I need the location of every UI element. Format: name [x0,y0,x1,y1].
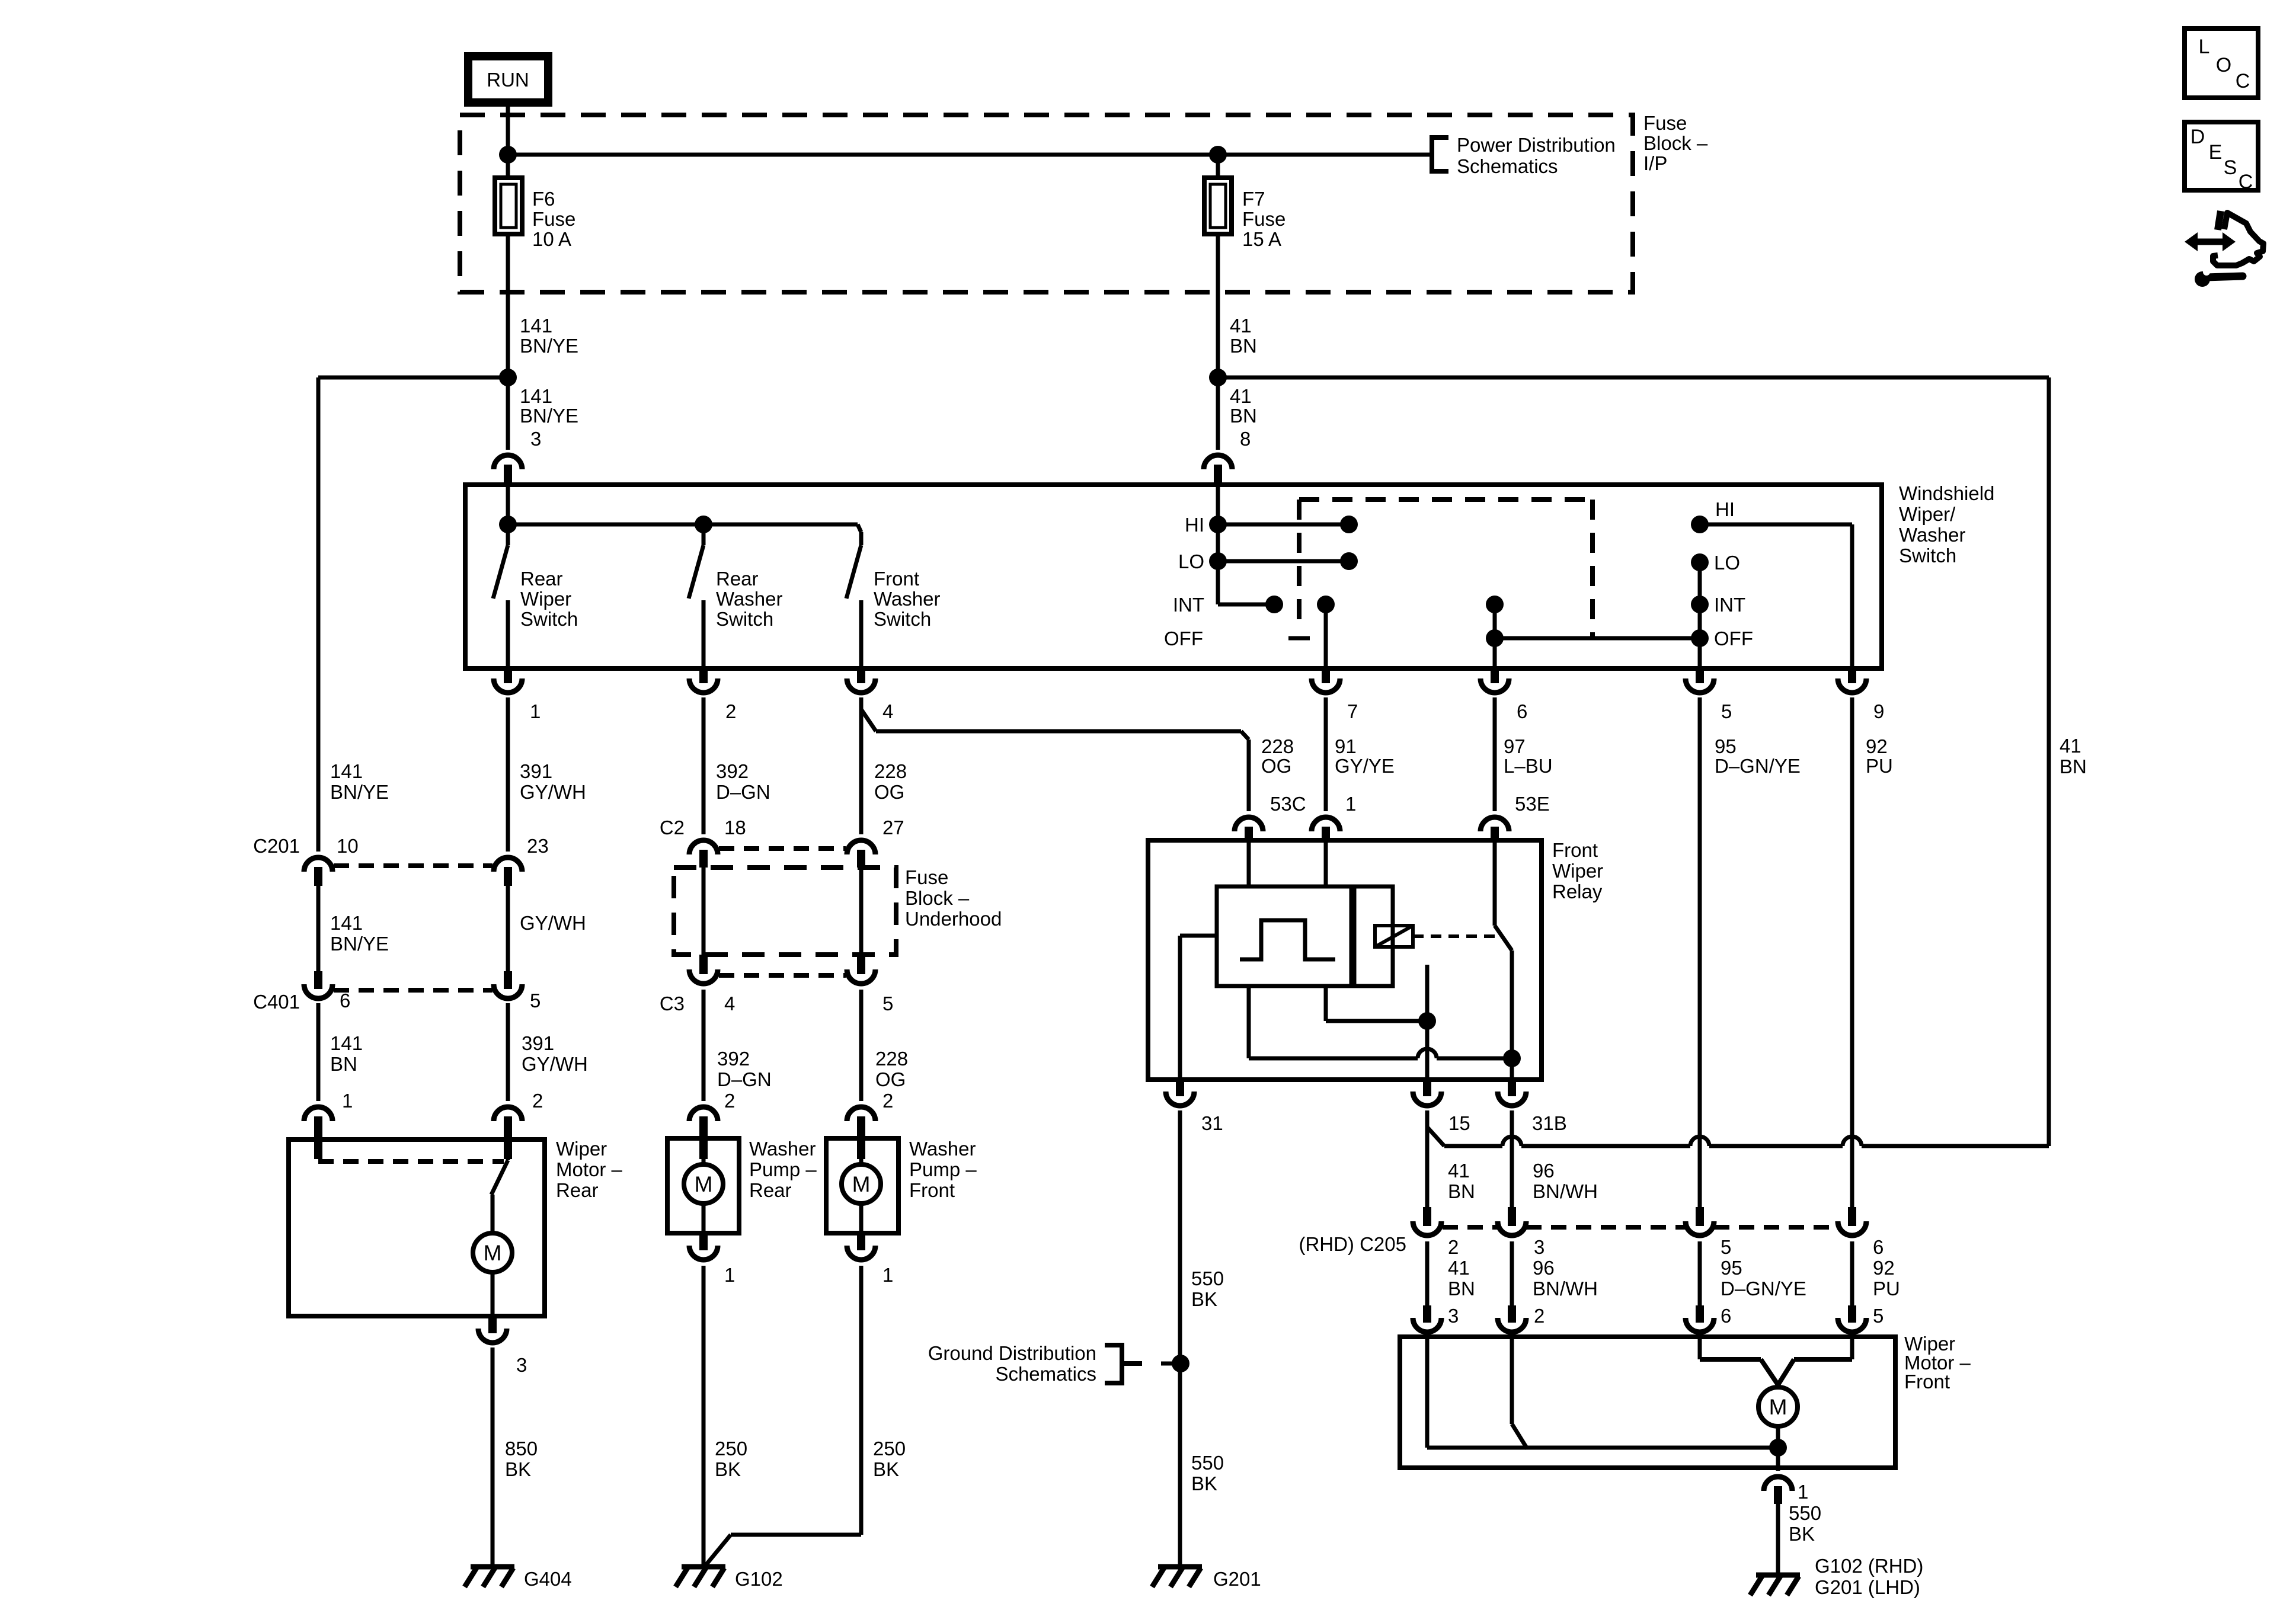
svg-text:HI: HI [1185,514,1204,536]
wire 550 BK upper [1178,1110,1182,1567]
label INT right [1714,594,1745,616]
svg-text:(RHD) C205: (RHD) C205 [1299,1233,1406,1255]
svg-text:C: C [2236,70,2250,92]
wire 228 to pump front [859,990,864,1101]
svg-text:Washer: Washer [716,588,782,610]
label Fuse Block - Underhood [905,866,1002,930]
label Wiper Motor - Rear [556,1138,623,1201]
label pin 3 [530,428,541,450]
label INT left [1173,594,1204,616]
connector relay pin 53C [1235,793,1306,840]
connector wiper motor rear pin 3 [478,1316,527,1376]
node junction RUN feed [499,146,517,164]
ground distribution reference bracket [1105,1345,1181,1383]
svg-text:41: 41 [2060,735,2081,757]
svg-text:BN: BN [1230,335,1257,357]
wire pin 6 off feed [1486,596,1504,668]
wire timer to pin 31 [1180,936,1217,1080]
node junction 41 split [1209,369,1227,386]
connector washer pump front pin 2 [847,1090,893,1159]
connector wiper motor rear pin 2 [494,1090,543,1159]
label HI right [1715,498,1735,520]
label LO left [1178,550,1204,572]
wire right bank common [1698,562,1702,668]
ground G102 [676,1567,783,1590]
svg-text:C2: C2 [660,817,685,838]
wire pin7 to relay 1 [1324,697,1328,811]
svg-text:E: E [2209,141,2223,164]
connector C201 pin 10 [304,835,359,886]
connector C3 pin 5 [847,955,893,1014]
wire pin1 to C201-23 [506,697,510,852]
svg-text:F7: F7 [1242,188,1265,210]
svg-text:Rear: Rear [716,568,759,590]
svg-text:BK: BK [873,1458,899,1480]
svg-text:6: 6 [340,990,350,1012]
svg-text:92: 92 [1866,735,1888,757]
svg-text:M: M [852,1172,871,1196]
label circuit 550 BK low [1191,1452,1224,1494]
svg-text:BK: BK [1789,1523,1815,1545]
wire pin2 to C2-18 [702,697,706,834]
connector C401 pin 6 [304,971,350,1012]
svg-text:Switch: Switch [716,608,773,630]
svg-text:BN: BN [1448,1180,1475,1202]
relay coil [1375,926,1413,947]
connector relay pin 15 [1413,1080,1470,1134]
motor M washer rear [684,1159,723,1233]
wire 31B to C205 [1510,1110,1514,1207]
svg-text:C3: C3 [660,993,685,1014]
label Washer Pump - Rear [749,1138,817,1201]
svg-text:BN: BN [330,1053,357,1075]
svg-text:5: 5 [530,990,541,1012]
wire 41 BN return [1427,1110,2049,1207]
label OFF right [1714,628,1753,649]
svg-text:5: 5 [1873,1305,1884,1327]
label LO right [1714,552,1740,574]
wire 550 BK front [1776,1504,1780,1575]
svg-text:Washer: Washer [874,588,940,610]
connector pin 1 switch output [494,668,541,722]
svg-text:10 A: 10 A [532,228,571,250]
wiper motor front box [1400,1337,1895,1468]
fuse block underhood dashed box [674,868,896,955]
connector wiper motor front pin 2 [1498,1305,1544,1332]
svg-text:Switch: Switch [1899,545,1956,566]
ground G201 [1152,1567,1261,1590]
svg-text:Relay: Relay [1552,881,1603,902]
label pin 8 [1240,428,1251,450]
svg-text:G201 (LHD): G201 (LHD) [1815,1576,1920,1598]
label circuit 41 BN lower [1230,385,1257,427]
wire 392 to pump rear [702,990,706,1101]
svg-text:Wiper/: Wiper/ [1899,503,1956,525]
svg-text:D–GN: D–GN [717,1068,772,1090]
svg-text:141: 141 [330,760,363,782]
svg-text:Fuse: Fuse [1643,112,1687,134]
svg-text:BK: BK [1191,1288,1217,1310]
svg-text:BN/WH: BN/WH [1533,1278,1598,1299]
label Front Washer Switch [874,568,940,630]
svg-text:L: L [2199,36,2210,58]
label Fuse Block - I/P [1643,112,1708,174]
wire power bus to Power Distribution [508,153,1431,157]
switch rear wiper [493,524,508,668]
label circuit GY/WH mid [520,912,586,934]
wire 53C to common [1249,986,1512,1058]
motor M washer front [842,1159,881,1233]
power distribution reference bracket [1432,137,1448,171]
svg-text:BN/WH: BN/WH [1533,1180,1598,1202]
label circuit 92 PU below C205 [1873,1257,1900,1299]
wire pin5 down [1698,697,1702,1207]
svg-text:141: 141 [330,912,363,934]
connector wiper motor front pin 6 [1686,1305,1731,1332]
svg-text:Rear: Rear [556,1179,599,1201]
motor M rear [473,1233,512,1272]
svg-text:Switch: Switch [520,608,578,630]
label Front Wiper Relay [1552,839,1603,902]
icon LOC box [2185,28,2258,98]
svg-text:Block –: Block – [1643,132,1708,154]
washer pump rear box [667,1138,739,1233]
connector C401 pin 5 [494,971,541,1012]
svg-text:Schematics: Schematics [995,1363,1096,1385]
connector C201 pin 23 [494,835,549,886]
connector wiper motor front pin 1 [1764,1477,1808,1504]
svg-text:Front: Front [874,568,919,590]
switch park front [1512,1337,1527,1449]
label circuit 95 D-GN/YE [1715,735,1801,777]
svg-text:M: M [1769,1395,1787,1419]
svg-text:3: 3 [1534,1236,1544,1258]
connector relay pin 1 [1312,793,1356,840]
svg-text:Wiper: Wiper [1552,860,1603,882]
svg-text:550: 550 [1191,1267,1224,1289]
svg-text:3: 3 [516,1354,527,1376]
node junction F7 tap [1209,146,1227,164]
windshield wiper/washer switch box [465,485,1882,668]
connector pin 2 switch output [689,668,736,722]
wire pin4 down [859,697,864,834]
label Ground Distribution Schematics [928,1342,1096,1385]
svg-text:850: 850 [505,1438,538,1459]
svg-text:31B: 31B [1532,1112,1567,1134]
svg-text:BN/YE: BN/YE [330,933,389,955]
wire motor front to pin1 [1776,1448,1780,1471]
svg-text:228: 228 [874,760,907,782]
node LO contact left [1209,552,1227,570]
wire LO contact left [1218,552,1358,570]
wire 141 branch left [318,377,508,852]
label circuit 141 BN/YE col A [330,760,389,803]
svg-text:391: 391 [522,1032,554,1054]
svg-text:5: 5 [1721,700,1732,722]
svg-text:PU: PU [1873,1278,1900,1299]
svg-text:OG: OG [1261,755,1291,777]
svg-text:53C: 53C [1270,793,1306,815]
svg-text:Pump –: Pump – [909,1158,977,1180]
connector pin 7 switch output [1312,668,1358,722]
svg-text:BN: BN [1448,1278,1475,1299]
connector wiper motor rear pin 1 [304,1090,353,1159]
svg-text:23: 23 [527,835,549,857]
label Washer Pump - Front [909,1138,977,1201]
wire C401 mate link [334,988,493,993]
ground G102 RHD G201 LHD [1750,1555,1923,1598]
svg-text:I/P: I/P [1643,152,1667,174]
fuse F7 15A [1204,155,1232,377]
svg-text:INT: INT [1173,594,1204,616]
node INT contact right [1691,596,1709,613]
svg-text:BK: BK [715,1458,741,1480]
wire pin1 into timer [1324,840,1328,886]
wire pin4 branch to relay 53C [861,709,1249,811]
connector C3 pin 4 [689,955,735,1014]
label OFF left [1164,628,1203,649]
switch relay contact blade [1495,926,1512,950]
svg-text:7: 7 [1347,700,1358,722]
label circuit 391 GY/WH low [522,1032,588,1075]
label Windshield Wiper/Washer Switch [1899,482,1994,566]
wire 850 BK [491,1347,495,1567]
svg-text:Fuse: Fuse [905,866,948,888]
svg-text:F6: F6 [532,188,555,210]
label circuit 41 BN above C205 [1448,1160,1475,1202]
wire C205-3 to motor [1510,1241,1514,1305]
connector pin 5 switch output [1686,668,1732,722]
wiper motor rear box [289,1140,545,1316]
svg-text:97: 97 [1504,735,1526,757]
label HI left [1185,514,1204,536]
switch front washer [846,532,861,668]
node OFF contact right [1691,629,1709,647]
svg-text:141: 141 [520,315,552,337]
svg-text:18: 18 [724,817,746,838]
svg-text:OG: OG [874,781,904,803]
wire 141 BN to motor [316,1003,321,1101]
icon DESC box [2185,122,2258,193]
wire 41 branch right to return [1218,377,2049,1146]
svg-text:Windshield: Windshield [1899,482,1994,504]
node junction rear washer feed [695,516,712,533]
node junction 550 BK tap [1172,1355,1189,1372]
wire 53E to relay contact [1493,840,1497,926]
wire 53C into timer [1247,840,1251,886]
svg-text:RUN: RUN [487,69,529,91]
svg-text:Rear: Rear [520,568,563,590]
svg-text:27: 27 [882,817,904,838]
svg-text:5: 5 [882,993,893,1014]
label circuit 141 BN/YE mid [330,912,389,955]
svg-text:Motor –: Motor – [556,1158,623,1180]
wire pin 7 pulse feed [1317,596,1335,668]
svg-text:1: 1 [342,1090,353,1112]
svg-text:OFF: OFF [1714,628,1753,649]
svg-text:BN/YE: BN/YE [520,405,578,427]
svg-text:2: 2 [882,1090,893,1112]
wire relay contact NO [1425,965,1430,1080]
label circuit 41 BN upper [1230,315,1257,357]
svg-text:Block –: Block – [905,887,970,909]
svg-text:96: 96 [1533,1257,1555,1279]
svg-text:550: 550 [1789,1502,1821,1524]
svg-text:C201: C201 [253,835,300,857]
label circuit 392 D-GN col C [716,760,770,803]
label circuit 141 BN/YE lower [520,385,578,427]
svg-text:Front: Front [1552,839,1598,861]
label Rear Washer Switch [716,568,782,630]
svg-text:O: O [2216,54,2231,76]
wire C205-6 to motor [1850,1241,1854,1305]
wire relay common [1503,950,1521,1080]
svg-text:S: S [2224,156,2237,179]
svg-text:41: 41 [1230,385,1252,407]
connector relay pin 31 [1166,1080,1223,1134]
svg-text:1: 1 [1798,1481,1808,1503]
svg-text:Front: Front [909,1179,955,1201]
connector washer pump rear pin 1 [689,1233,735,1286]
label circuit 250 BK front [873,1438,906,1480]
svg-text:HI: HI [1715,498,1735,520]
svg-text:Fuse: Fuse [1242,208,1285,230]
svg-text:Pump –: Pump – [749,1158,817,1180]
svg-text:6: 6 [1873,1236,1884,1258]
svg-text:LO: LO [1714,552,1740,574]
svg-text:Washer: Washer [749,1138,816,1160]
svg-text:2: 2 [724,1090,735,1112]
svg-text:BK: BK [1191,1473,1217,1494]
wire 250 BK rear [702,1266,706,1567]
svg-text:2: 2 [1448,1236,1459,1258]
svg-text:M: M [695,1172,713,1196]
svg-text:15: 15 [1448,1112,1470,1134]
svg-text:G404: G404 [524,1568,572,1590]
pulse waveform symbol [1240,920,1335,959]
svg-text:Front: Front [1904,1371,1950,1393]
label circuit 92 PU [1866,735,1893,777]
svg-text:BK: BK [505,1458,531,1480]
svg-text:C: C [2239,171,2253,193]
svg-text:41: 41 [1230,315,1252,337]
label circuit 550 BK mid [1191,1267,1224,1310]
wire pin1 to contact [1326,986,1436,1030]
label circuit 228 OG col D [874,760,907,803]
fuse block I/P dashed box [460,115,1633,292]
svg-text:228: 228 [875,1048,908,1070]
connector C205 pin 3 [1498,1207,1544,1258]
svg-text:5: 5 [1721,1236,1731,1258]
svg-text:250: 250 [715,1438,747,1459]
motor M front [1758,1387,1798,1426]
svg-text:95: 95 [1715,735,1737,757]
label circuit 91 GY/YE [1335,735,1395,777]
switch rear washer [689,524,703,668]
svg-text:41: 41 [1448,1160,1470,1182]
svg-text:BN/YE: BN/YE [330,781,389,803]
svg-text:Rear: Rear [749,1179,792,1201]
svg-text:L–BU: L–BU [1504,755,1553,777]
svg-text:Switch: Switch [874,608,931,630]
svg-text:Fuse: Fuse [532,208,575,230]
svg-text:D: D [2191,126,2205,148]
icon vehicle service symbol [2185,211,2263,287]
connector relay pin 31B [1498,1080,1567,1134]
wire front wiper switch common [1218,485,1274,604]
node INT contact left [1265,596,1283,613]
svg-text:Washer: Washer [1899,524,1965,546]
label circuit 96 BN/WH below C205 [1533,1257,1598,1299]
connector C205 pin 5 [1686,1207,1731,1258]
svg-text:250: 250 [873,1438,906,1459]
svg-text:91: 91 [1335,735,1357,757]
label Wiper Motor - Front [1904,1333,1971,1393]
svg-text:PU: PU [1866,755,1893,777]
label F6 Fuse 10 A [532,188,575,250]
svg-text:3: 3 [1448,1305,1459,1327]
label connector C2 [660,817,685,838]
svg-text:3: 3 [530,428,541,450]
svg-text:15 A: 15 A [1242,228,1281,250]
svg-text:2: 2 [1534,1305,1544,1327]
connector C2 pin 27 [847,817,904,868]
svg-text:41: 41 [1448,1257,1470,1279]
svg-text:D–GN: D–GN [716,781,770,803]
svg-text:141: 141 [330,1032,363,1054]
svg-text:GY/WH: GY/WH [520,781,586,803]
node HI contact right [1691,516,1709,533]
label Power Distribution Schematics [1457,134,1616,177]
node junction 141 split [499,369,517,386]
connector pin 9 switch output [1838,668,1884,722]
wire OFF link [1495,636,1700,641]
connector pin 8 switch [1204,377,1232,485]
washer pump front box [826,1138,898,1233]
connector washer pump front pin 1 [847,1233,893,1286]
svg-text:8: 8 [1240,428,1251,450]
label circuit 550 BK front [1789,1502,1821,1545]
label circuit 391 GY/WH col B [520,760,586,803]
svg-text:D–GN/YE: D–GN/YE [1715,755,1801,777]
wire 228 through fuse block [859,868,864,955]
wire 392 through fuse block [702,868,706,955]
wire switch feed bus [508,485,861,532]
svg-text:C401: C401 [253,991,300,1013]
ground G404 [465,1567,572,1590]
wire motor front pins 6 5 bar [1700,1337,1852,1385]
svg-text:M: M [484,1241,502,1265]
wire C205 mate link [1443,1225,1838,1230]
label connector C401 [253,991,300,1013]
svg-text:Schematics: Schematics [1457,155,1558,177]
label circuit 141 BN low [330,1032,363,1075]
svg-text:4: 4 [724,993,735,1014]
wire pin9 down [1850,697,1854,1207]
wire 391 GY/WH to motor [506,1003,510,1101]
svg-text:G201: G201 [1213,1568,1261,1590]
label circuit 97 L-BU [1504,735,1553,777]
wire motor rear to pin3 [491,1272,495,1316]
connector wiper motor front pin 5 [1838,1305,1884,1332]
connector pin 6 switch output [1480,668,1527,722]
svg-text:6: 6 [1721,1305,1731,1327]
label connector (RHD) C205 [1299,1233,1406,1255]
svg-text:Ground Distribution: Ground Distribution [928,1342,1096,1364]
wire C201 mate link [334,863,493,868]
svg-text:392: 392 [717,1048,750,1070]
label Rear Wiper Switch [520,568,578,630]
